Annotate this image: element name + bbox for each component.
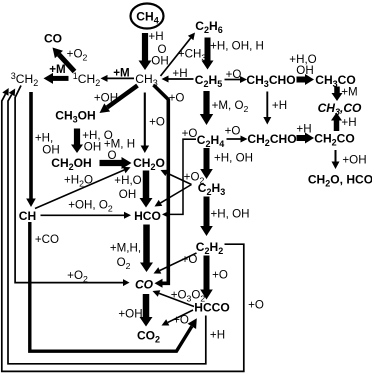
node C2H5 [195, 73, 222, 89]
svg-text:OH: OH [42, 144, 59, 157]
label +H (CH2CHO->CH2CO) [296, 123, 311, 136]
arrow 1CH2 to CO (+O2) [53, 48, 75, 72]
arrow CH2OH to CH2O (+M,H,O) [100, 157, 132, 169]
node CH [19, 209, 36, 223]
svg-text:+H: +H [172, 67, 187, 80]
node CH3CHO [246, 73, 295, 89]
svg-text:+H, OH, H: +H, OH, H [210, 40, 264, 53]
svg-text:+O: +O [182, 253, 198, 266]
node 1CH2 [73, 71, 100, 88]
arrow CH to HCO (+OH, O2) [41, 212, 132, 219]
arrow CH3 to CH3OH (+OH) [100, 86, 138, 114]
label O (CH4->CH3) [157, 43, 166, 56]
arrow C2H5 to CH3 (+H) [162, 76, 194, 83]
node CO italic [135, 278, 154, 292]
svg-text:CH: CH [19, 209, 36, 223]
svg-text:+H: +H [296, 123, 311, 136]
arrow C2H5 to C2H4 (+M, O2) [200, 91, 213, 125]
svg-text:+O: +O [182, 127, 198, 140]
label +O (C2H4->HCO) [182, 127, 198, 140]
arrow C2H3 to HCO (+O2) [155, 185, 192, 207]
label +H,O (CH3CHO->CH3CO) [289, 53, 316, 66]
svg-text:CO: CO [44, 32, 62, 46]
arrow HCCO loop to 3CH2 (+H) [8, 89, 206, 364]
svg-text:+M: +M [341, 86, 357, 99]
node C2H6 [195, 19, 222, 35]
arrow HCO to CO (+M,H,O2) [140, 225, 153, 273]
arrow HCCO to CO2 (+O) [162, 310, 194, 326]
label O2 (HCO->CO) [117, 256, 131, 271]
svg-text:+M: +M [49, 63, 65, 76]
node CO2 [137, 329, 160, 345]
arrow C2H4 to CH2CHO (+O) [227, 136, 248, 143]
arrow HCCO to CO (+O3O2) [153, 290, 195, 306]
svg-text:+H,O: +H,O [114, 174, 141, 187]
label +O2 (C2H3->CH2O+HCO) [184, 171, 205, 186]
svg-text:+O: +O [226, 68, 242, 81]
svg-text:+OH, O2: +OH, O2 [68, 199, 113, 214]
arrow C2H4 to HCO elbow (+O) [162, 139, 196, 218]
label +H, OH (C2H3->C2H2) [211, 208, 250, 221]
label +H, OH, H (C2H6->C2H5) [210, 40, 264, 53]
node CH2O [133, 156, 165, 172]
arrow CH to HCCO via bottom (+CO) [30, 222, 197, 351]
arrow CH2O to HCO (+H,O,OH) [140, 171, 153, 208]
svg-text:+H, OH: +H, OH [214, 152, 253, 165]
label +M,H, (HCO->CO) [110, 242, 141, 255]
node CH2O, HCO [308, 173, 372, 189]
label +H (CH3CHO->CH2CHO) [272, 99, 287, 112]
svg-text:OH: OH [84, 141, 101, 154]
label +O2 (3CH2->CO) [67, 269, 88, 284]
arrow C2H2 to HCCO (+O) [200, 256, 213, 300]
svg-text:+H: +H [272, 99, 287, 112]
arrow CH3 to CH2O (+O) [141, 93, 150, 154]
label OH (3CH2->CH) [42, 144, 59, 157]
node CH2OH [51, 156, 92, 172]
arrow CH3CO to CH3,CO (+M) [332, 87, 343, 102]
label OH (CH4->CH3) [151, 55, 168, 68]
arrow C2H5 to CH3CHO (+O) [225, 76, 248, 83]
label +O (C2H5->CH3CHO) [226, 68, 242, 81]
label +H (HCCO loop) [210, 329, 225, 342]
svg-text:CO: CO [135, 278, 154, 292]
label +OH (CO->CO2) [118, 308, 142, 321]
ellipse around CH4 [131, 4, 164, 29]
arrow C2H4 to C2H3 (+H, OH) [200, 148, 213, 179]
arrow CH3OH to CH2OH (+H,O,OH) [71, 129, 83, 154]
label +H, (3CH2->CH) [35, 132, 53, 145]
arrow CH3 to C2H6 (+CH3) [161, 33, 196, 77]
label +O (HCCO->CO2) [173, 314, 189, 327]
node 3CH2 [11, 71, 38, 88]
node C2H3 [198, 181, 225, 197]
node CH2CHO [247, 132, 296, 148]
label OH (CH3OH->CH2OH) [84, 141, 101, 154]
arrow CH3 to CO elbow (+O) [154, 85, 169, 288]
node CH4 [136, 10, 158, 26]
arrow 3CH2 to CO via left (+O2) [15, 86, 129, 287]
label +O (C2H2->CO) [182, 253, 198, 266]
node CH3OH [55, 109, 96, 125]
label +O2 (1CH2->CO) [67, 48, 88, 63]
svg-text:CH3CHO: CH3CHO [246, 73, 295, 89]
label +M bold (1CH2->3CH2) [49, 63, 65, 76]
svg-text:+CO: +CO [35, 233, 59, 246]
label +H (C2H5->CH3) [172, 67, 187, 80]
svg-text:+H: +H [341, 116, 356, 129]
label +O (C2H2->HCCO) [212, 269, 228, 282]
label +M, O2 (C2H5->C2H4) [212, 99, 249, 114]
label +OH (CH2CO->CH2O,HCO) [342, 154, 366, 167]
arrow 1CH2 to 3CH2 (+M) [44, 73, 69, 84]
node HCCO [194, 301, 229, 315]
svg-text:+O: +O [248, 299, 264, 312]
svg-text:CH3,CO: CH3,CO [318, 101, 362, 117]
label O (CH2OH->CH2O) [107, 149, 116, 162]
arrow CH2CO up to CH3,CO (+H) [331, 113, 342, 132]
svg-text:OH: OH [296, 64, 313, 77]
svg-text:+OH: +OH [118, 308, 142, 321]
svg-text:+H: +H [210, 329, 225, 342]
label +M bold (CH3->1CH2) [113, 67, 129, 80]
node CH3CO [315, 73, 356, 89]
arrow CH2CHO to CH2CO (+H) [297, 133, 315, 144]
svg-text:CH2CHO: CH2CHO [247, 132, 296, 148]
label +M, H (CH2OH->CH2O) [104, 138, 135, 151]
label +H, O (CH3OH->CH2OH) [82, 129, 113, 142]
node HCO [134, 209, 161, 223]
label +M (CH3CO->CH3,CO) [341, 86, 357, 99]
arrow CH3 to 1CH2 (+M) [101, 75, 135, 82]
label +H, OH (C2H4->C2H3) [214, 152, 253, 165]
label +H (CH2CO->CH3,CO) [341, 116, 356, 129]
arrow CO to CO2 (+OH) [140, 294, 153, 327]
arrow C2H2 to CO (+O) [154, 253, 197, 274]
svg-text:+H, OH: +H, OH [211, 208, 250, 221]
svg-text:+M: +M [113, 67, 129, 80]
label OH (CH3CHO->CH3CO) [296, 64, 313, 77]
svg-text:OH: OH [119, 188, 136, 201]
node CH3 [135, 72, 157, 88]
svg-text:+O: +O [169, 92, 185, 105]
arrow CH3CHO to CH2CHO (+H) [263, 92, 271, 125]
arrow CH2CO to CH2O,HCO (+OH) [332, 150, 340, 169]
svg-text:+M, O2: +M, O2 [212, 99, 249, 114]
node CH3,CO italic [318, 101, 362, 117]
label +O (C2H2 loop) [248, 299, 264, 312]
svg-text:+H2O: +H2O [64, 174, 93, 189]
arrow 3CH2 to CH (+H, OH) [26, 92, 36, 207]
node C2H2 [196, 240, 223, 256]
node CH2CO [314, 132, 355, 148]
arrow C2H6 to C2H5 (+H, OH, H) [202, 38, 214, 70]
label +H (CH4->CH3) [148, 30, 163, 43]
svg-text:+OH: +OH [342, 154, 366, 167]
label +H,O (CH2O->HCO) [114, 174, 141, 187]
svg-text:CH2O: CH2O [133, 156, 165, 172]
svg-text:CH2O, HCO: CH2O, HCO [308, 173, 372, 189]
svg-text:+O: +O [149, 116, 165, 129]
svg-text:+H: +H [148, 30, 163, 43]
svg-text:+O: +O [225, 125, 241, 138]
arrow C2H3 to CH2O (+O2) [161, 170, 192, 185]
label +O3O2 (HCCO->CO) [171, 289, 206, 304]
svg-text:O: O [107, 149, 116, 162]
label +O (C2H4->CH2CHO) [225, 125, 241, 138]
label +OH, O2 (CH->HCO) [68, 199, 113, 214]
svg-text:+OH: +OH [94, 92, 118, 105]
arrow CH to CH2O (+H2O) [35, 167, 131, 209]
svg-text:OH: OH [151, 55, 168, 68]
label +OH (CH3->CH3OH) [94, 92, 118, 105]
label +CH3 (CH3->C2H6) [178, 48, 207, 63]
label +H2O (CH->CH2O) [64, 174, 93, 189]
svg-text:+O: +O [212, 269, 228, 282]
label OH (CH2O->HCO) [119, 188, 136, 201]
svg-text:HCO: HCO [134, 209, 161, 223]
arrow CH4 to CH3 (+H,O,OH) [139, 33, 152, 70]
node CO top-left [44, 32, 62, 46]
svg-text:+O: +O [173, 314, 189, 327]
arrow C2H2 loop to 3CH2 (+O) [2, 88, 244, 371]
arrow C2H3 to C2H2 (+H, OH) [200, 197, 213, 237]
label +CO (CH->HCCO) [35, 233, 59, 246]
arrow CH3CHO to CH3CO (+H,O,OH) [297, 74, 315, 85]
label +O (CH3->CH2O) [149, 116, 165, 129]
label +O (CH3->CO) [169, 92, 185, 105]
node C2H4 [197, 133, 224, 149]
svg-text:+M,H,: +M,H, [110, 242, 141, 255]
